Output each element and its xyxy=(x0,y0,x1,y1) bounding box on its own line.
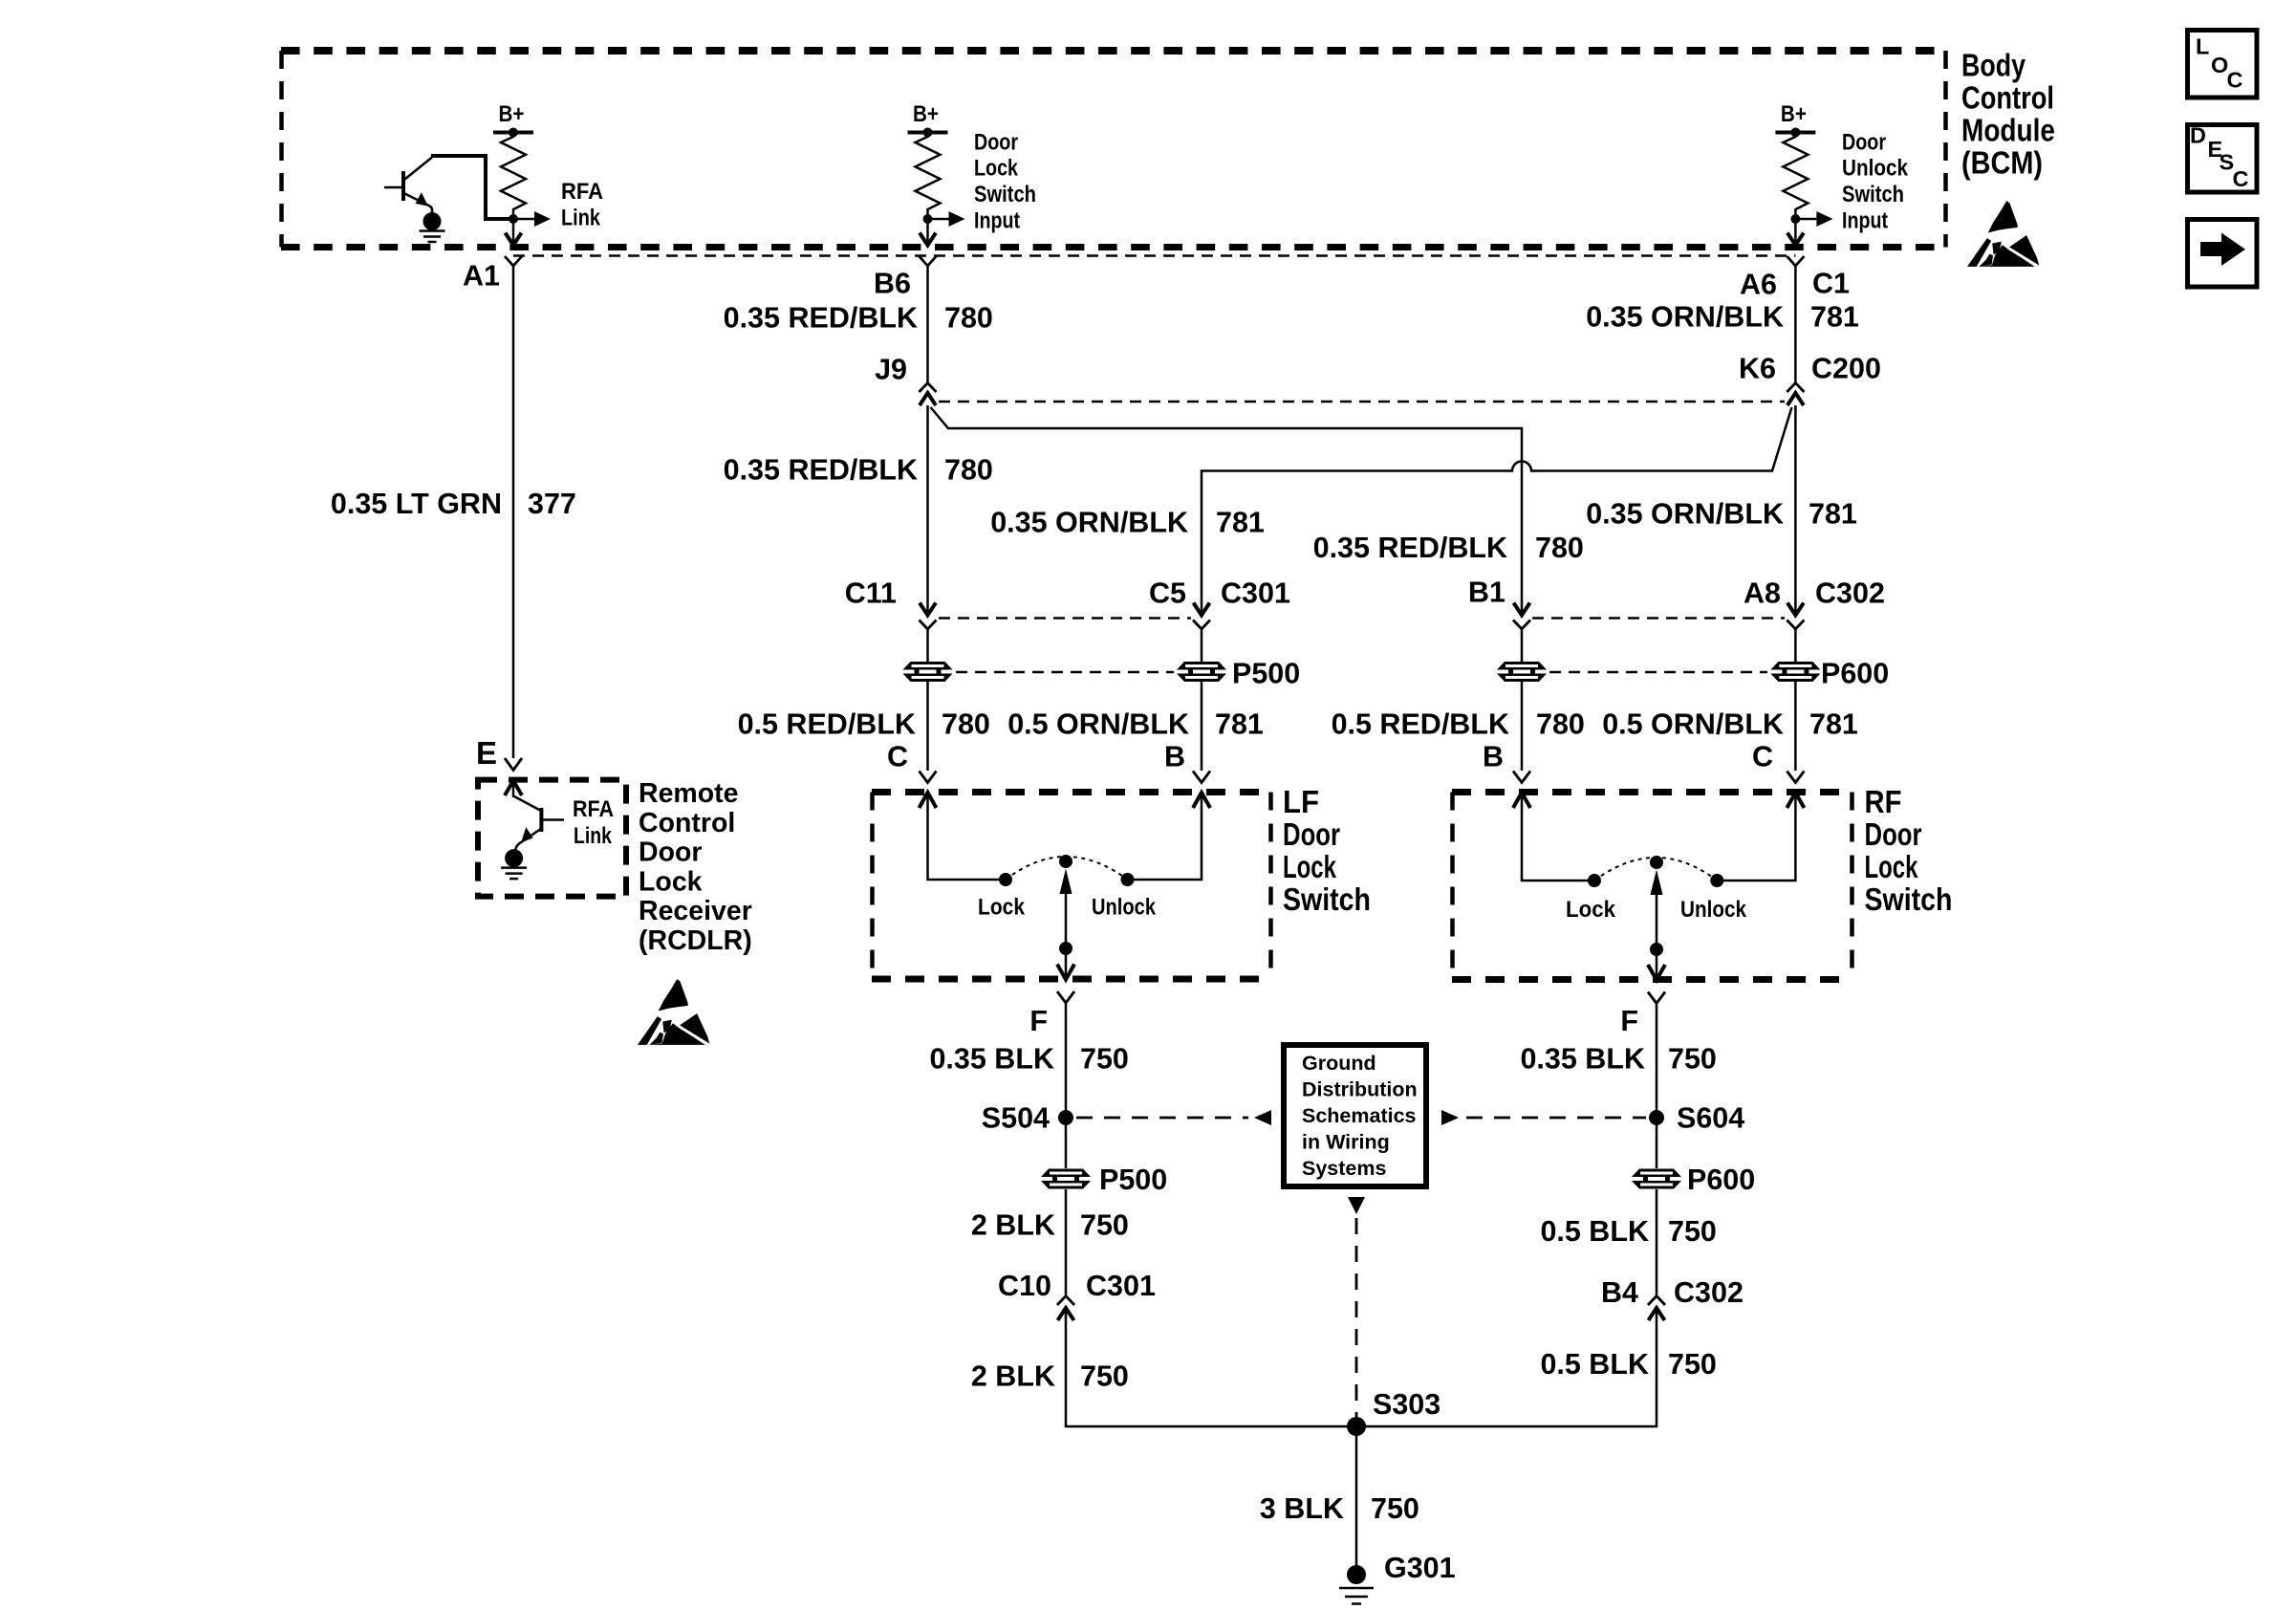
svg-text:750: 750 xyxy=(1371,1492,1419,1525)
svg-text:C5: C5 xyxy=(1149,577,1186,610)
svg-text:B: B xyxy=(1483,741,1504,773)
svg-text:S604: S604 xyxy=(1677,1102,1744,1135)
svg-text:750: 750 xyxy=(1668,1043,1717,1076)
svg-text:C200: C200 xyxy=(1811,353,1881,385)
svg-text:LF: LF xyxy=(1283,784,1319,819)
svg-text:750: 750 xyxy=(1668,1348,1717,1381)
svg-text:Lock: Lock xyxy=(639,867,703,898)
svg-text:781: 781 xyxy=(1809,708,1858,741)
svg-text:F: F xyxy=(1029,1005,1048,1037)
svg-text:Control: Control xyxy=(639,808,735,838)
svg-text:3 BLK: 3 BLK xyxy=(1260,1492,1344,1525)
svg-text:0.35 RED/BLK: 0.35 RED/BLK xyxy=(724,454,918,487)
svg-text:C: C xyxy=(887,741,908,773)
svg-text:2 BLK: 2 BLK xyxy=(971,1360,1055,1393)
svg-text:0.35 LT GRN: 0.35 LT GRN xyxy=(331,488,502,520)
svg-text:Unlock: Unlock xyxy=(1092,895,1156,921)
svg-text:Lock: Lock xyxy=(1283,849,1336,884)
svg-text:2 BLK: 2 BLK xyxy=(971,1209,1055,1242)
svg-text:0.35 BLK: 0.35 BLK xyxy=(1520,1043,1645,1076)
svg-text:0.35 RED/BLK: 0.35 RED/BLK xyxy=(1313,532,1507,564)
svg-text:Door: Door xyxy=(1283,816,1340,852)
svg-text:K6: K6 xyxy=(1739,353,1776,385)
svg-text:G301: G301 xyxy=(1384,1552,1456,1584)
svg-text:Switch: Switch xyxy=(1283,881,1371,917)
svg-text:750: 750 xyxy=(1668,1215,1717,1248)
svg-text:F: F xyxy=(1620,1005,1638,1037)
svg-text:RF: RF xyxy=(1865,784,1902,819)
svg-text:0.5 BLK: 0.5 BLK xyxy=(1540,1215,1649,1248)
svg-text:in Wiring: in Wiring xyxy=(1302,1131,1390,1154)
svg-text:0.35 ORN/BLK: 0.35 ORN/BLK xyxy=(990,507,1188,539)
svg-text:Door: Door xyxy=(974,130,1018,156)
svg-text:Unlock: Unlock xyxy=(1842,156,1908,182)
svg-text:RFA: RFA xyxy=(573,796,614,822)
svg-text:780: 780 xyxy=(1536,708,1585,741)
svg-text:0.35 ORN/BLK: 0.35 ORN/BLK xyxy=(1586,301,1784,334)
svg-text:P600: P600 xyxy=(1821,658,1889,690)
svg-text:Lock: Lock xyxy=(1865,849,1918,884)
svg-text:780: 780 xyxy=(944,302,993,335)
svg-text:0.5 BLK: 0.5 BLK xyxy=(1540,1348,1649,1381)
svg-text:Unlock: Unlock xyxy=(1680,897,1746,923)
svg-text:C301: C301 xyxy=(1221,577,1290,610)
svg-text:0.35 BLK: 0.35 BLK xyxy=(929,1043,1054,1076)
svg-text:0.35 RED/BLK: 0.35 RED/BLK xyxy=(724,302,918,335)
svg-text:Door: Door xyxy=(1842,130,1886,156)
svg-text:Lock: Lock xyxy=(974,156,1018,182)
svg-text:Door: Door xyxy=(1865,816,1922,852)
svg-text:780: 780 xyxy=(942,708,990,741)
svg-text:B6: B6 xyxy=(874,268,911,300)
svg-text:(RCDLR): (RCDLR) xyxy=(639,925,752,956)
svg-text:0.5 RED/BLK: 0.5 RED/BLK xyxy=(1332,708,1509,741)
svg-text:A1: A1 xyxy=(463,260,500,293)
svg-text:P500: P500 xyxy=(1232,658,1300,690)
svg-text:RFA: RFA xyxy=(561,179,603,205)
svg-text:B1: B1 xyxy=(1468,577,1505,609)
svg-text:Body: Body xyxy=(1961,48,2026,83)
svg-text:Switch: Switch xyxy=(1842,182,1904,207)
svg-text:781: 781 xyxy=(1809,498,1857,531)
svg-text:Link: Link xyxy=(561,206,600,231)
svg-text:Input: Input xyxy=(1842,208,1888,234)
svg-text:0.5 ORN/BLK: 0.5 ORN/BLK xyxy=(1602,708,1784,741)
svg-text:A8: A8 xyxy=(1744,577,1781,610)
svg-text:781: 781 xyxy=(1215,708,1264,741)
svg-text:C302: C302 xyxy=(1815,577,1885,610)
svg-text:Door: Door xyxy=(639,838,703,868)
svg-text:B4: B4 xyxy=(1601,1276,1638,1309)
svg-text:C302: C302 xyxy=(1674,1276,1744,1309)
svg-text:C11: C11 xyxy=(845,577,897,610)
svg-text:750: 750 xyxy=(1080,1209,1129,1242)
svg-text:Ground: Ground xyxy=(1302,1052,1376,1075)
svg-text:781: 781 xyxy=(1810,301,1859,334)
svg-text:0.35 ORN/BLK: 0.35 ORN/BLK xyxy=(1586,498,1784,531)
svg-text:C10: C10 xyxy=(998,1270,1051,1302)
svg-text:Module: Module xyxy=(1961,113,2055,148)
svg-text:A6: A6 xyxy=(1740,269,1777,301)
svg-text:C1: C1 xyxy=(1812,268,1850,300)
svg-text:C301: C301 xyxy=(1086,1270,1156,1302)
svg-text:P600: P600 xyxy=(1687,1164,1755,1196)
svg-text:Control: Control xyxy=(1961,80,2054,116)
svg-text:Link: Link xyxy=(574,823,612,849)
svg-text:750: 750 xyxy=(1080,1360,1129,1393)
svg-text:Receiver: Receiver xyxy=(639,896,752,926)
svg-text:780: 780 xyxy=(1535,532,1584,564)
svg-text:E: E xyxy=(476,735,497,771)
svg-text:P500: P500 xyxy=(1099,1164,1167,1196)
svg-text:377: 377 xyxy=(528,488,576,520)
svg-text:Remote: Remote xyxy=(639,778,739,809)
svg-text:780: 780 xyxy=(944,454,993,487)
svg-text:B: B xyxy=(1164,741,1185,773)
svg-text:C: C xyxy=(2227,68,2243,93)
svg-text:Switch: Switch xyxy=(1865,881,1953,917)
svg-text:0.5 RED/BLK: 0.5 RED/BLK xyxy=(738,708,916,741)
svg-text:D: D xyxy=(2190,122,2206,147)
svg-text:J9: J9 xyxy=(875,354,907,386)
svg-text:Switch: Switch xyxy=(974,182,1036,207)
svg-text:0.5 ORN/BLK: 0.5 ORN/BLK xyxy=(1007,708,1189,741)
svg-text:Input: Input xyxy=(974,208,1020,234)
svg-text:(BCM): (BCM) xyxy=(1961,145,2043,181)
svg-text:S504: S504 xyxy=(982,1102,1050,1135)
svg-text:781: 781 xyxy=(1216,507,1265,539)
svg-text:Lock: Lock xyxy=(1566,897,1615,923)
svg-text:Distribution: Distribution xyxy=(1302,1078,1418,1101)
svg-text:C: C xyxy=(2233,166,2249,191)
svg-text:750: 750 xyxy=(1080,1043,1129,1076)
svg-text:Systems: Systems xyxy=(1302,1157,1386,1180)
svg-text:C: C xyxy=(1752,741,1773,773)
svg-text:S303: S303 xyxy=(1373,1388,1440,1421)
svg-text:L: L xyxy=(2196,34,2209,59)
svg-text:Schematics: Schematics xyxy=(1302,1104,1417,1127)
svg-text:Lock: Lock xyxy=(978,895,1025,921)
